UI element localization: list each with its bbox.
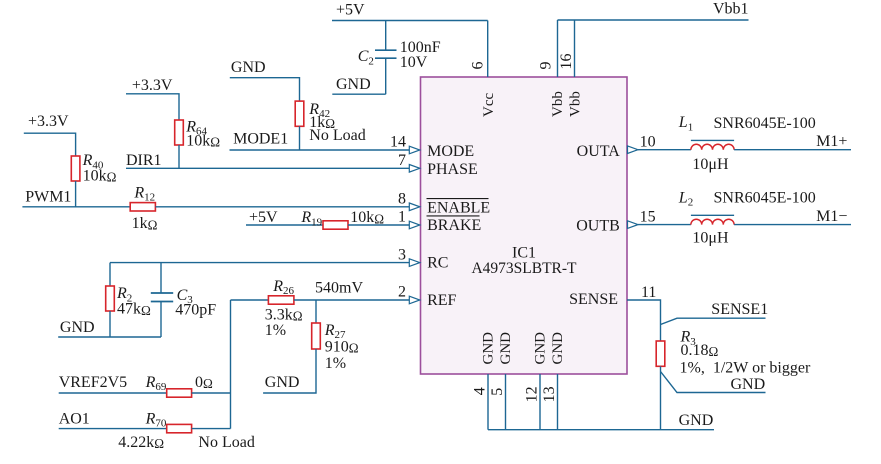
wire R2 bottom lead [109,311,111,337]
wire C3 bottom lead [160,302,162,338]
svg-text:GND: GND [60,319,95,336]
wire pin 13 GND [557,374,559,430]
svg-text:8: 8 [398,191,406,208]
svg-text:4.22kΩ: 4.22kΩ [118,434,164,451]
wire RC node to pin 3 [110,262,410,264]
wire R3 bottom lead [660,366,662,429]
wire C3 top lead [160,263,162,293]
pin arrow 1 [409,221,420,229]
wire R27 bottom lead to GND corner [263,349,316,393]
wire SENSE1 tap [661,318,766,324]
svg-text:PHASE: PHASE [427,161,478,178]
svg-text:M1−: M1− [816,208,847,225]
wire +5V rail [332,20,488,22]
wire GND stub under C2 [332,93,385,95]
resistor R3 [656,341,665,366]
wire L1 to M1+ [734,149,851,151]
svg-text:RC: RC [427,255,448,272]
svg-text:AO1: AO1 [59,410,90,427]
resistor R70 [167,424,192,432]
inductor L1 [691,140,734,149]
resistor R40 [71,156,80,181]
pin name ENABLE (active low) [427,199,491,217]
wire REF riser from R69/R70 junction [230,300,232,429]
svg-text:47kΩ: 47kΩ [117,301,151,318]
svg-text:MODE: MODE [427,143,474,160]
wire VREF2V5 to R69 [59,392,167,394]
svg-text:ENABLE: ENABLE [427,200,490,217]
wire pin 5 GND [505,374,507,430]
wire +3.3V to R64 top [126,94,179,120]
svg-text:Vcc: Vcc [481,93,497,117]
wire DIR1 to pin 7 [126,167,410,169]
wire SENSE pin 11 [627,300,661,341]
svg-text:6: 6 [469,62,486,70]
svg-text:12: 12 [524,386,541,402]
svg-text:SENSE1: SENSE1 [711,301,768,318]
svg-text:2: 2 [398,284,406,301]
resistor R12 [130,203,155,211]
svg-text:GND: GND [265,374,300,391]
resistor R64 [175,120,184,145]
wire R26 to pin 2 [294,299,410,301]
svg-text:GND: GND [679,412,714,429]
pin arrow 15 [628,221,639,229]
svg-text:GND: GND [481,332,497,365]
svg-text:1kΩ: 1kΩ [132,215,158,232]
wire R40 bottom lead [75,181,77,207]
svg-text:0Ω: 0Ω [195,374,213,391]
svg-text:GND: GND [731,376,766,393]
wire R2 top lead [109,263,111,286]
svg-text:No Load: No Load [309,127,365,144]
capacitor C2 [375,50,397,58]
svg-text:BRAKE: BRAKE [427,217,481,234]
wire MODE1 to pin 14 [230,149,410,151]
svg-text:10: 10 [640,133,656,150]
resistor R19 [323,221,348,229]
svg-text:MODE1: MODE1 [233,131,288,148]
svg-text:GND: GND [498,332,514,365]
wire R64 bottom lead [178,145,180,168]
wire L2 to M1- [734,224,851,226]
svg-text:Vbb: Vbb [550,91,566,117]
inductor L2 [691,215,734,224]
wire capacitor C2 top lead [385,21,387,51]
wire pin 4 GND [487,374,489,430]
svg-text:7: 7 [398,152,406,169]
wire Vbb1 rail [558,19,749,21]
wire GND to R42 top [230,78,300,101]
wire R42 bottom lead [299,126,301,150]
wire GND tap (R3) [661,372,766,393]
pin arrow 2 [409,296,420,304]
svg-text:5: 5 [489,388,506,396]
svg-text:13: 13 [541,386,558,402]
svg-text:+3.3V: +3.3V [132,77,173,94]
svg-text:+3.3V: +3.3V [28,113,69,130]
svg-text:GND: GND [533,332,549,365]
svg-text:VREF2V5: VREF2V5 [59,374,127,391]
pin name BRAKE (active low) [427,216,482,234]
svg-text:910Ω: 910Ω [325,339,359,356]
wire OUTA to inductor L1 [638,149,691,151]
wire R12 to pin 8 [155,206,409,208]
IC IC1 A4973SLBTR-T body [421,77,628,374]
svg-text:4: 4 [472,387,489,395]
svg-text:10kΩ: 10kΩ [83,168,117,185]
svg-text:14: 14 [390,134,406,151]
svg-text:OUTA: OUTA [577,143,621,160]
svg-text:10μH: 10μH [692,156,729,173]
svg-text:3: 3 [398,246,406,263]
svg-text:15: 15 [640,208,656,225]
wire R19 to pin 1 [348,224,410,226]
svg-text:1%: 1% [265,322,286,339]
wire capacitor C2 bottom lead [385,58,387,94]
svg-text:10kΩ: 10kΩ [350,209,384,226]
pin arrow 7 [409,165,420,173]
wire pin 6 Vcc [487,21,489,78]
wire R70 to junction [192,428,231,430]
wire PWM1 to R12 [22,206,130,208]
svg-text:470pF: 470pF [175,302,216,319]
svg-text:Vbb: Vbb [568,91,584,117]
pin arrow 8 [409,203,420,211]
svg-text:+5V: +5V [249,209,278,226]
svg-text:10μH: 10μH [692,230,729,247]
wire AO1 to R70 [59,428,167,430]
svg-text:10kΩ: 10kΩ [186,133,220,150]
wire +5V to R19 [246,224,323,226]
wire R27 top lead [315,300,317,323]
svg-text:A4973SLBTR-T: A4973SLBTR-T [471,260,577,277]
svg-text:REF: REF [427,292,456,309]
svg-text:540mV: 540mV [315,280,363,297]
resistor R69 [167,389,192,397]
svg-text:SNR6045E-100: SNR6045E-100 [714,115,816,132]
svg-text:9: 9 [537,62,554,70]
svg-text:SNR6045E-100: SNR6045E-100 [714,190,816,207]
svg-text:Vbb1: Vbb1 [713,0,749,17]
svg-text:No Load: No Load [198,434,254,451]
wire GND line under R2 and C3 [58,336,161,338]
wire GND bus [488,429,714,431]
resistor R42 [295,101,304,126]
svg-text:GND: GND [231,59,266,76]
svg-text:16: 16 [558,54,575,70]
pin arrow 14 [409,146,420,154]
resistor R26 [268,296,294,304]
pin arrow 10 [628,146,639,154]
wire R69 to junction [192,392,231,394]
capacitor C3 [151,293,173,302]
wire pin 9 Vbb [557,20,559,77]
wire pin 12 GND [539,374,541,430]
svg-text:M1+: M1+ [816,133,847,150]
svg-text:PWM1: PWM1 [25,189,71,206]
svg-text:1%, 1/2W or bigger: 1%, 1/2W or bigger [680,360,811,377]
svg-text:SENSE: SENSE [569,291,618,308]
svg-text:0.18Ω: 0.18Ω [681,342,719,359]
svg-text:GND: GND [550,332,566,365]
svg-text:IC1: IC1 [512,244,536,261]
wire pin 16 Vbb [574,20,576,77]
wire OUTB to inductor L2 [638,224,691,226]
wire riser to R26 [231,299,269,301]
svg-text:10V: 10V [400,54,428,71]
resistor R2 [106,286,115,311]
wire +3.3V to R40 top [24,133,76,156]
svg-text:+5V: +5V [336,2,365,19]
svg-text:GND: GND [336,76,371,93]
resistor R27 [312,323,321,349]
pin arrow 3 [409,259,420,267]
svg-text:OUTB: OUTB [576,218,620,235]
svg-text:1%: 1% [325,355,346,372]
svg-text:DIR1: DIR1 [126,152,162,169]
svg-text:1: 1 [398,209,406,226]
svg-text:11: 11 [641,284,656,301]
